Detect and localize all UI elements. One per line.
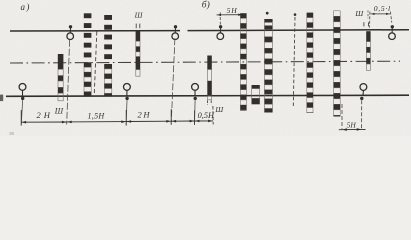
stake symbol: top edge, panel b, right: [389, 25, 396, 39]
svg-text:1,5Н: 1,5Н: [88, 111, 106, 120]
dimension line segment 0,5N: [195, 120, 214, 123]
stake symbol: top edge, panel a, first: [67, 25, 74, 39]
middle thin dashed pole line, panel b: [293, 17, 295, 106]
dimension chain panel a: extension ticks: [21, 106, 213, 126]
boundary shield pole between panels: [207, 56, 212, 100]
svg-text:0,5Н: 0,5Н: [198, 111, 215, 120]
dot above middle dashed pole line, panel b: [294, 13, 297, 16]
width bracket of boundary pole: [207, 100, 209, 105]
svg-text:а): а): [21, 2, 31, 12]
svg-text:2Н: 2Н: [37, 110, 53, 120]
faint smudge, bottom left page edge: [10, 132, 15, 135]
dimension line segment 1,5N: [67, 120, 126, 123]
5N dimension, panel b top: [217, 14, 243, 17]
dashed leader from Sh label to pole: [367, 10, 369, 18]
shield pole (sh), panel b right: [366, 31, 370, 70]
svg-text:5Н: 5Н: [347, 121, 357, 130]
checkered pole 4, panel b: [307, 13, 314, 113]
svg-text:Ш: Ш: [54, 107, 64, 116]
width bracket of top shield pole: [135, 24, 137, 29]
5N dimension, panel b bottom: [339, 104, 366, 131]
dot above pole 2, panel b: [266, 12, 269, 15]
checkered pole 1, panel b: [240, 13, 246, 110]
stake symbol: bottom edge, panel a, first: [19, 84, 26, 126]
svg-text:Ш: Ш: [214, 105, 224, 114]
dimension line segment 2N (left): [21, 121, 67, 124]
shield pole (sh) at top edge, panel a: [136, 31, 141, 76]
checkered pole 5, panel b: [333, 11, 340, 117]
thin dashed pole line between poles A and B: [94, 32, 97, 97]
page edge mark at left, near bottom road line: [0, 95, 3, 102]
extension line from first top stake down to dimension line: [67, 40, 70, 125]
width bracket of Sh pole, panel b: [363, 22, 365, 26]
stake symbol: top edge, panel a, second: [172, 25, 179, 39]
top road edge line, panel a: [10, 30, 180, 32]
svg-text:б): б): [202, 0, 210, 10]
stake symbol: top edge, panel b, left: [217, 25, 224, 39]
svg-text:Ш: Ш: [354, 9, 364, 18]
stake symbol: bottom edge, panel b: [360, 84, 367, 129]
dimension line segment 2N (right): [126, 120, 171, 123]
svg-text:5Н: 5Н: [227, 6, 238, 15]
top road edge line, panel b: [188, 29, 410, 32]
center dash-dot axis line: [10, 61, 400, 63]
svg-text:Ш: Ш: [134, 10, 144, 19]
checkered pole B, panel a (x~108): [104, 15, 112, 96]
shield pole on axis, panel a: [58, 54, 64, 101]
stake symbol: bottom edge, panel a, second: [124, 84, 131, 126]
bottom road edge line: [6, 95, 409, 96]
short checkered pole below bottom edge, panel b: [252, 85, 260, 104]
checkered pole A, panel a (x~87): [84, 13, 92, 96]
extension line from second top stake down to dimension line: [171, 38, 175, 124]
extension line up from left top stake, panel b: [219, 12, 221, 25]
0,5*l dimension, panel b top right: [370, 12, 392, 28]
svg-text:2Н: 2Н: [138, 110, 152, 120]
dimension line segment unlabeled: [171, 120, 194, 123]
stake symbol: bottom edge, panel a, third: [192, 84, 199, 126]
svg-text:0,5·l: 0,5·l: [374, 4, 391, 13]
checkered pole 2, panel b: [264, 19, 272, 113]
